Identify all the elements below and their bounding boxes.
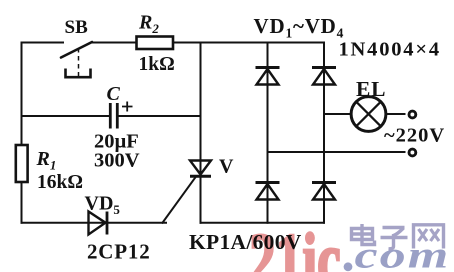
svg-text:C: C — [107, 83, 121, 105]
wire bridge bottom rail — [201, 222, 325, 224]
wire left vertical below R1 — [21, 182, 23, 223]
svg-text:SB: SB — [65, 17, 89, 38]
diode VD3 (bridge branch1 bottom) — [256, 183, 280, 200]
lamp EL cross — [356, 102, 380, 126]
lamp EL circle — [351, 97, 386, 132]
diode VD1 (bridge branch1 top) — [256, 68, 280, 85]
diode VD5 triangle — [89, 212, 106, 235]
wire bridge left rail upper (node with C) — [200, 43, 202, 223]
svg-text:R2: R2 — [138, 12, 159, 37]
wire gate diagonal to thyristor V — [163, 177, 197, 223]
watermark chinese char zi 子 — [381, 228, 408, 249]
diode VD4 (bridge branch2 bottom) — [312, 183, 336, 200]
wire left vertical (top wire corner down to R1) — [21, 43, 23, 146]
svg-text:~220V: ~220V — [384, 125, 445, 147]
wire switch SB to resistor R2 — [92, 42, 137, 44]
thyristor V cathode bar — [190, 175, 211, 178]
svg-text:VD5: VD5 — [85, 193, 121, 218]
terminal 1 (AC live) — [409, 111, 416, 118]
svg-text:2CP12: 2CP12 — [87, 240, 151, 264]
wire resistor R2 to bridge top rail end — [173, 42, 324, 44]
watermark chinese char wang 网 — [414, 225, 444, 249]
wire bridge branch 2 vertical — [323, 43, 325, 223]
watermark chinese char dian 电 — [352, 224, 375, 245]
svg-text:1kΩ: 1kΩ — [139, 54, 175, 75]
svg-text:R1: R1 — [36, 148, 57, 173]
svg-text:16kΩ: 16kΩ — [37, 172, 83, 193]
capacitor C polarity plus sign — [122, 102, 133, 112]
switch SB blade — [61, 42, 92, 58]
wire bridge branch 1 vertical — [267, 43, 269, 223]
watermark dot between ic and com — [344, 262, 353, 271]
svg-text:V: V — [219, 156, 234, 178]
svg-text:1N4004×4: 1N4004×4 — [339, 39, 441, 61]
terminal 2 (AC neutral) — [409, 149, 416, 156]
resistor R1 body — [16, 145, 28, 182]
wire bottom-left horizontal to diode VD5 — [22, 222, 167, 224]
thyristor V triangle — [190, 161, 211, 175]
switch SB actuator dashed link — [78, 48, 80, 76]
svg-text:EL: EL — [356, 77, 386, 101]
wire lamp EL to terminal 1 — [387, 113, 405, 115]
svg-text:VD1~VD4: VD1~VD4 — [254, 14, 345, 41]
wire capacitor C left segment — [22, 115, 110, 117]
svg-text:300V: 300V — [94, 150, 140, 172]
wire AC mid rail to terminal 2 — [268, 151, 405, 153]
wire bridge branch2 tap to lamp EL — [324, 113, 353, 115]
diode VD5 cathode bar — [106, 212, 109, 235]
switch SB pushbutton bracket — [66, 69, 91, 78]
wire top-left from source corner to switch SB — [22, 42, 64, 44]
capacitor C plates — [110, 103, 117, 129]
resistor R2 body — [137, 37, 174, 50]
diode VD2 (bridge branch2 top) — [312, 68, 336, 85]
svg-text:21ic: 21ic — [249, 219, 341, 272]
wire capacitor C right segment to left rail — [118, 115, 200, 117]
